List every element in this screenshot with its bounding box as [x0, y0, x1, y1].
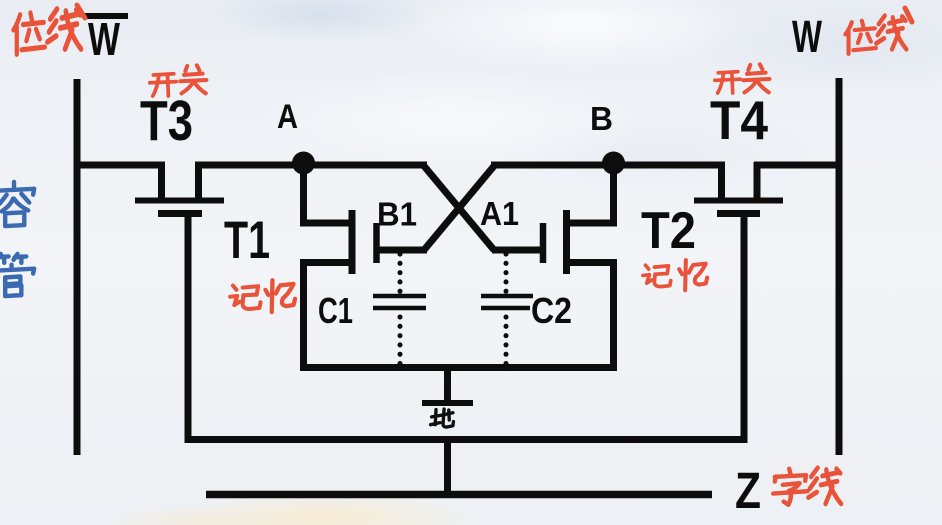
svg-text:W: W [792, 11, 822, 62]
annotation 地 ground label (black) [431, 409, 454, 427]
annotation 记忆 left (red) [230, 280, 295, 312]
wire cross-couple A to A1 (diagonal) [424, 166, 494, 250]
capacitor C2 [481, 254, 533, 364]
annotation 管 (blue) [0, 254, 34, 296]
capacitor C1 [373, 254, 426, 364]
wire T2 source to box right [565, 263, 614, 372]
annotation 字线 bottom (red) [773, 468, 841, 505]
svg-text:A: A [277, 98, 298, 136]
svg-text:T2: T2 [641, 202, 696, 260]
annotation 位线' top-right (red) [845, 8, 912, 54]
wire word bus down to Z line [444, 436, 451, 498]
svg-text:B1: B1 [377, 196, 417, 233]
wire top-left (W-bar to T3 source) [74, 162, 165, 169]
wire T3 drain to node A to crossover [195, 162, 427, 169]
transistor T2 [543, 210, 567, 274]
wire word line (gates bus) [187, 436, 744, 443]
wire cross-couple B to B1 (diagonal) [424, 166, 494, 250]
node B [602, 152, 625, 175]
annotation 位线' top-left (red) [13, 5, 85, 54]
svg-text:T3: T3 [140, 89, 193, 153]
annotation 容 (blue) [0, 182, 34, 226]
svg-text:C2: C2 [531, 290, 572, 331]
wire T4 drain to bit line W [754, 162, 842, 169]
svg-text:W: W [88, 13, 120, 65]
wire node A down to T1 drain [304, 163, 355, 223]
transistor T1 [352, 210, 377, 274]
wire T2 gate stub A1 [492, 247, 543, 254]
wire ground bus (box bottom) [300, 364, 617, 371]
node A [292, 152, 315, 175]
wire T3 gate vertical down to word wire [185, 214, 192, 443]
svg-text:T4: T4 [710, 89, 768, 151]
svg-text:Z: Z [735, 462, 761, 519]
wire crossover to node B to T4 source [491, 162, 725, 169]
transistor T3 [135, 162, 224, 214]
svg-text:C1: C1 [318, 290, 353, 331]
wire T1 gate stub B1 [376, 247, 427, 254]
transistor T4 [694, 162, 783, 214]
ground [422, 364, 473, 403]
bit line W-bar (left vertical) [74, 79, 81, 455]
wire T1 source to box left [304, 263, 356, 372]
W-bar overline [85, 13, 128, 19]
wire node B down to T2 drain [565, 163, 614, 223]
wire Z line (bottom bus) [206, 491, 712, 499]
annotation 记忆 right (red) [643, 260, 707, 290]
bit line W (right vertical) [836, 78, 843, 455]
annotation 开关 right (red) [715, 64, 770, 93]
svg-text:A1: A1 [480, 195, 519, 232]
svg-text:T1: T1 [224, 211, 270, 270]
annotation 开关 left (red) [150, 65, 207, 96]
wire T4 gate vertical down to word wire [741, 214, 748, 443]
svg-text:B: B [590, 100, 613, 137]
